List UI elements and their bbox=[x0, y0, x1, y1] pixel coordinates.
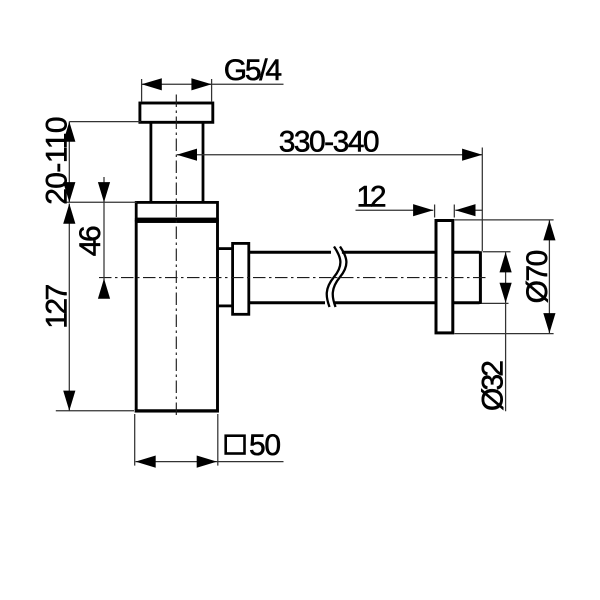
pipe break squiggle bbox=[327, 247, 347, 308]
svg-text:Ø70: Ø70 bbox=[521, 250, 554, 304]
inlet pipe (vertical tube) bbox=[151, 123, 203, 203]
horizontal waste pipe bbox=[249, 251, 481, 304]
trap body (cup) bbox=[136, 222, 217, 412]
top flange (G5/4 thread collar) bbox=[140, 103, 213, 122]
dimension 46 bbox=[103, 177, 105, 298]
svg-text:G5/4: G5/4 bbox=[224, 54, 282, 87]
dimension 20-110 bbox=[67, 122, 141, 203]
dimension 12 bbox=[356, 205, 483, 218]
compression nut bbox=[233, 243, 249, 314]
dimension diameter 70 bbox=[455, 220, 554, 334]
svg-text:50: 50 bbox=[249, 429, 281, 462]
dimension 127 bbox=[56, 204, 134, 411]
dimension 330-340 bbox=[177, 148, 483, 252]
svg-text:330-340: 330-340 bbox=[279, 125, 380, 158]
svg-text:20-110: 20-110 bbox=[41, 116, 74, 204]
trap body top cap nut bbox=[136, 202, 217, 219]
wall flange (rosette) bbox=[436, 221, 453, 333]
svg-text:46: 46 bbox=[74, 225, 107, 256]
svg-text:Ø32: Ø32 bbox=[477, 360, 510, 411]
dimension square 50 bbox=[135, 414, 284, 466]
dimension diameter 32 bbox=[482, 252, 511, 412]
square symbol bbox=[226, 436, 245, 454]
horizontal centerline bbox=[99, 277, 487, 279]
cap joint band bbox=[135, 218, 219, 222]
outlet stub bbox=[218, 249, 233, 306]
dimension G5/4 bbox=[142, 79, 284, 102]
vertical centerline bbox=[175, 95, 177, 418]
svg-text:12: 12 bbox=[357, 181, 387, 214]
body bottom edge bbox=[135, 409, 219, 412]
svg-text:127: 127 bbox=[41, 284, 74, 329]
